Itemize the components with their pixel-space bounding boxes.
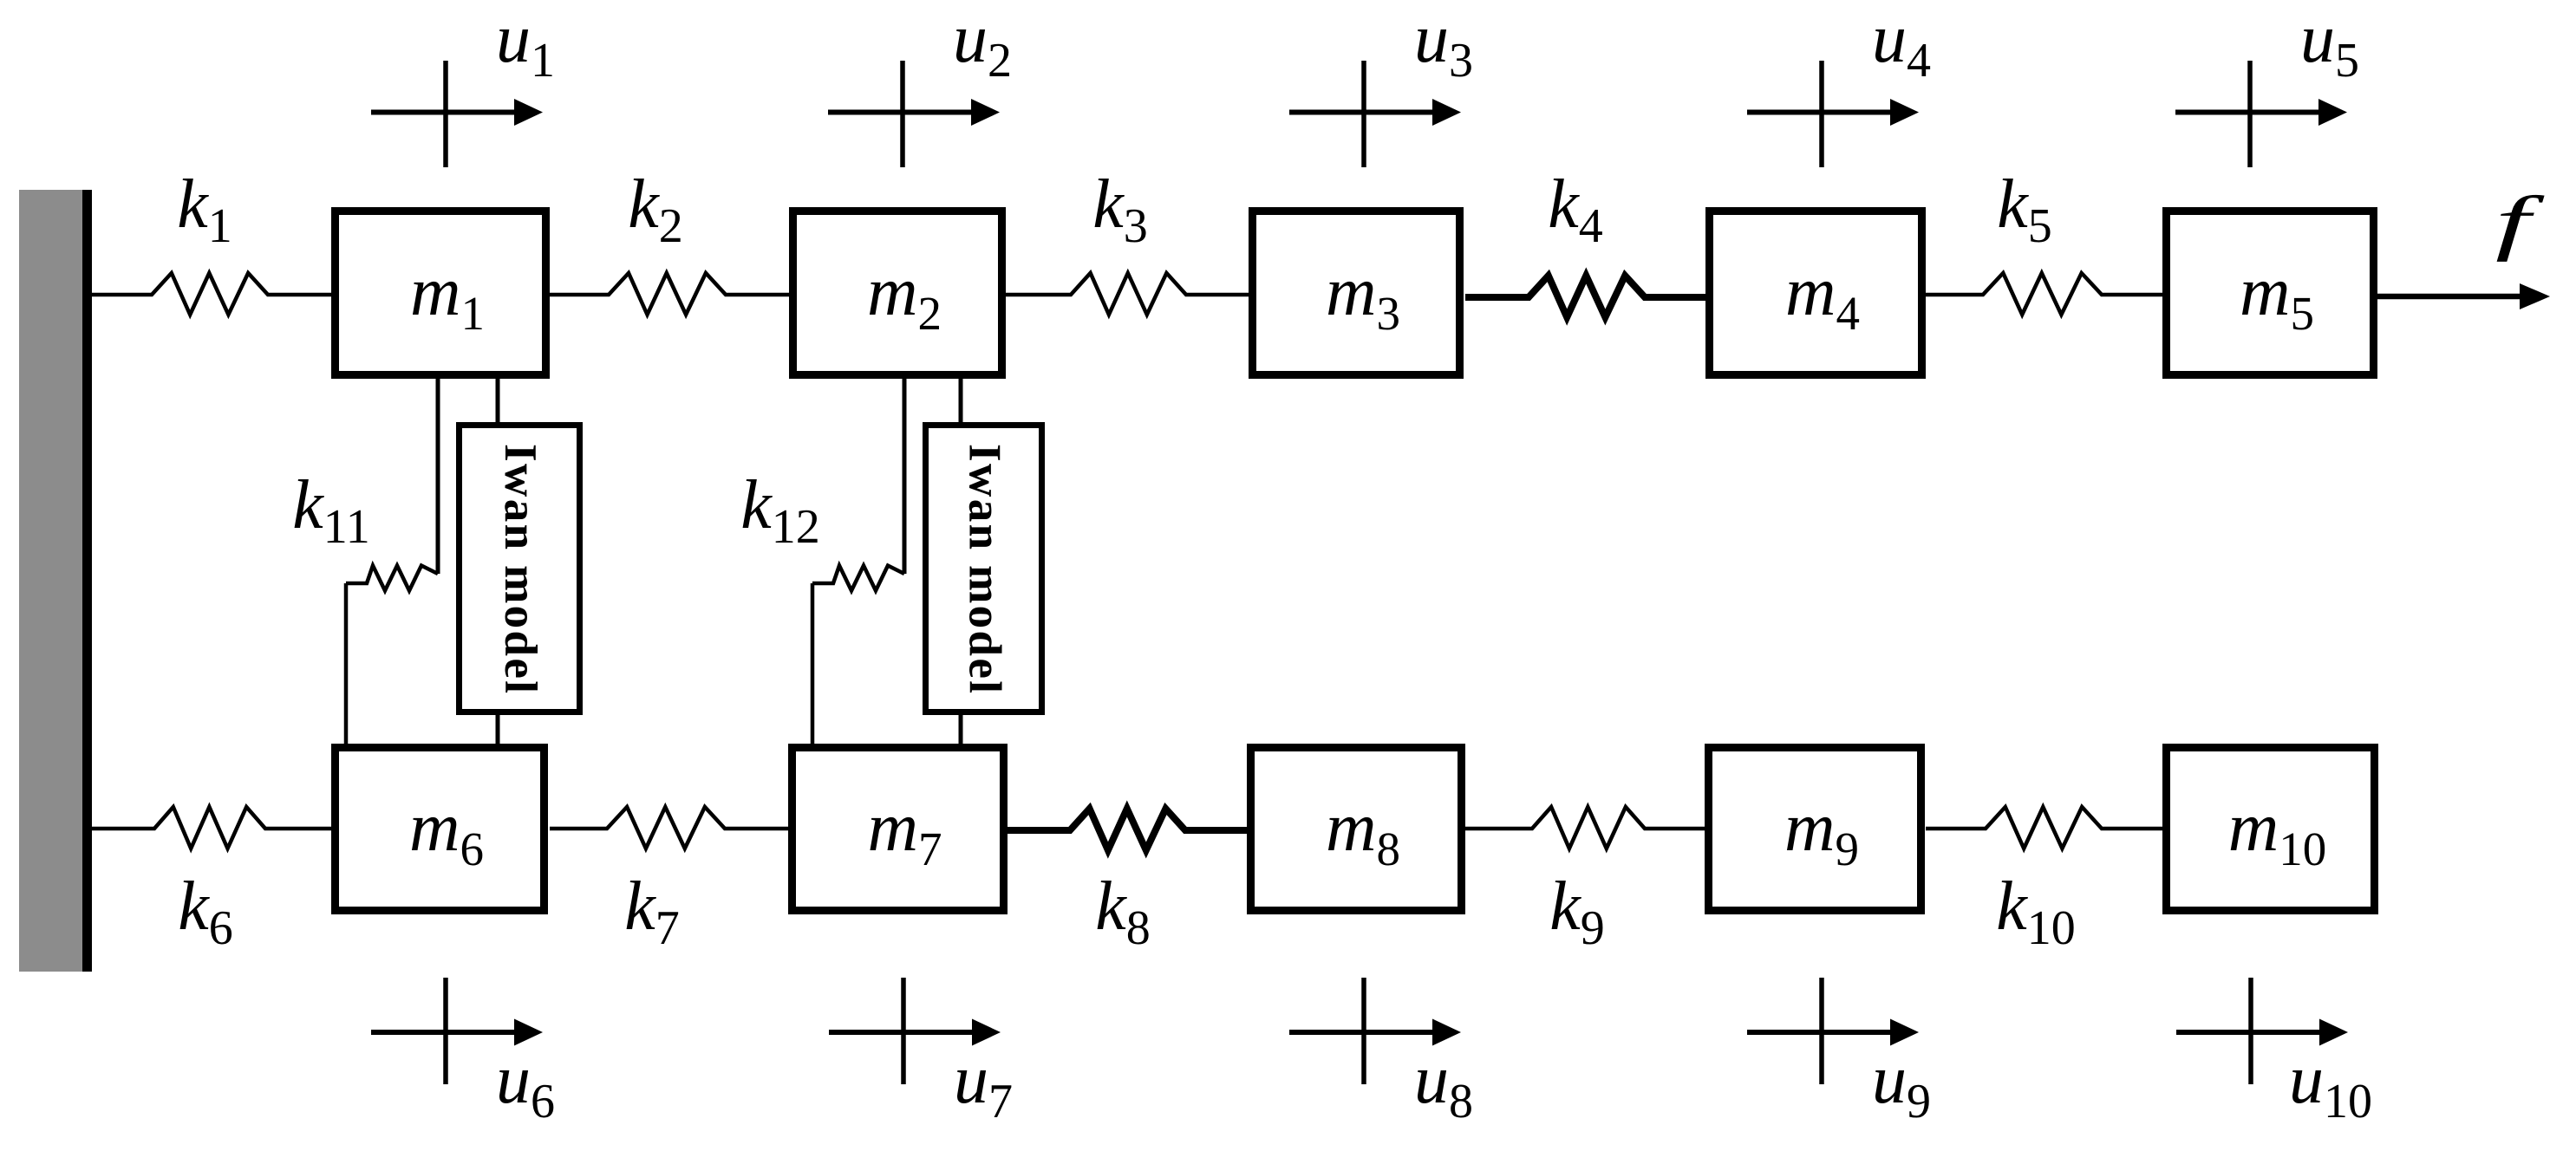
svg-text:Iwan model: Iwan model xyxy=(495,444,545,693)
svg-text:Iwan model: Iwan model xyxy=(959,444,1009,693)
